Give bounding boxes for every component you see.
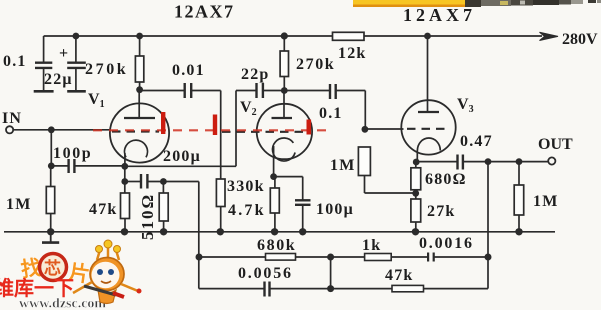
label 100u bbox=[316, 201, 354, 218]
label 270k second bbox=[296, 56, 335, 73]
ground symbol bbox=[42, 232, 59, 243]
tube V3 envelope bbox=[401, 100, 455, 154]
node dot V2 plate bbox=[281, 87, 288, 94]
svg-text:0.1: 0.1 bbox=[3, 53, 27, 70]
svg-text:100μ: 100μ bbox=[316, 201, 354, 218]
label 0.1 mid bbox=[319, 105, 343, 122]
red tick mid bbox=[213, 115, 217, 136]
tube V1 envelope bbox=[110, 103, 169, 162]
node dot gnd 510 bbox=[160, 228, 167, 235]
svg-text:OUT: OUT bbox=[538, 136, 573, 153]
watermark url text bbox=[19, 297, 106, 310]
resistor R 1M output bbox=[514, 162, 524, 232]
wire V3 plate lead bbox=[427, 36, 429, 112]
node dot gnd 330k bbox=[217, 228, 224, 235]
svg-text:V2: V2 bbox=[240, 99, 257, 118]
wire 22p down to cathode bus bbox=[235, 91, 237, 167]
label 47k cathode bbox=[89, 201, 118, 218]
svg-text:V3: V3 bbox=[457, 96, 474, 115]
wire V1 cathode bus bbox=[125, 165, 236, 167]
node dot input junction bbox=[48, 126, 55, 133]
svg-text:12k: 12k bbox=[338, 45, 367, 62]
capacitor C 0.01 coupling bbox=[140, 83, 221, 98]
node dot gnd 1M out bbox=[515, 228, 522, 235]
tube V3 cathode bbox=[417, 138, 440, 162]
node dot V3 grid bbox=[362, 126, 369, 133]
node dot gnd 4.7k bbox=[271, 228, 278, 235]
svg-text:680k: 680k bbox=[257, 237, 296, 254]
red tick V2 bbox=[307, 120, 312, 135]
svg-text:V1: V1 bbox=[88, 91, 105, 110]
resistor R 27k bbox=[411, 199, 421, 232]
wire vertical 0.01 to 330k bbox=[220, 91, 222, 180]
watermark weiku text bbox=[0, 276, 74, 300]
watermark magnifier lens bbox=[40, 254, 67, 281]
svg-text:510Ω: 510Ω bbox=[138, 193, 157, 240]
capacitor C 0.47 output bbox=[416, 155, 548, 170]
node dot gnd 27k bbox=[412, 228, 419, 235]
node dot 22u on rail bbox=[73, 33, 80, 40]
node dot 1M out top bbox=[516, 158, 523, 165]
node dot output tap bbox=[485, 158, 492, 165]
label 280V bbox=[562, 31, 598, 48]
node dot gnd 100u bbox=[299, 228, 306, 235]
label 1M output bbox=[533, 193, 559, 210]
node dot 510 top bbox=[160, 178, 167, 185]
svg-text:1M: 1M bbox=[533, 193, 559, 210]
label 1k bbox=[362, 237, 381, 254]
resistor R 4.7k cathode V2 bbox=[270, 177, 279, 232]
capacitor C 100u bypass bbox=[295, 200, 311, 232]
node dot 270k V1 on rail bbox=[136, 33, 143, 40]
svg-text:0.1: 0.1 bbox=[319, 105, 343, 122]
tube V1 plate bbox=[124, 90, 155, 118]
wire feedback line lower bbox=[199, 288, 488, 290]
capacitor C 0.1 coupling mid bbox=[284, 84, 365, 99]
label 0.0016 bbox=[419, 235, 474, 252]
node dot V3 cathode bbox=[413, 159, 420, 166]
terminal IN bbox=[6, 126, 110, 133]
wire feedback line upper bbox=[199, 256, 488, 258]
capacitor C 100p bbox=[51, 159, 125, 173]
terminal OUT bbox=[548, 157, 555, 164]
label 200u bbox=[163, 148, 201, 165]
label 47k feedback bbox=[385, 267, 414, 284]
watermark magnifier text bbox=[19, 255, 91, 287]
node dot 100p junction bbox=[48, 163, 55, 170]
svg-text:芯: 芯 bbox=[44, 258, 61, 278]
tube V2 cathode bbox=[272, 138, 295, 177]
svg-text:12AX7: 12AX7 bbox=[174, 2, 235, 22]
resistor R 47k cathode V1 bbox=[121, 193, 130, 232]
watermark mascot bbox=[73, 240, 142, 304]
node dot gnd 47k bbox=[121, 228, 128, 235]
wire feedback riser bbox=[198, 182, 200, 289]
label 0.1 bbox=[3, 53, 27, 70]
tube V2 envelope bbox=[257, 104, 312, 159]
ground bar under 0.1 bbox=[34, 90, 54, 93]
capacitor C 22u electrolytic bbox=[67, 36, 86, 91]
svg-text:1M: 1M bbox=[330, 157, 356, 174]
resistor R 270k second bbox=[280, 36, 288, 91]
label 330k bbox=[227, 178, 265, 195]
svg-text:47k: 47k bbox=[385, 267, 414, 284]
svg-text:270k: 270k bbox=[296, 56, 335, 73]
label 100p bbox=[53, 145, 92, 162]
node dot 200u tap bbox=[121, 178, 128, 185]
wire output feedback drop bbox=[487, 162, 489, 289]
label 22p bbox=[241, 66, 270, 83]
svg-text:330k: 330k bbox=[227, 178, 265, 195]
svg-text:IN: IN bbox=[2, 110, 22, 127]
resistor R 680k feedback bbox=[266, 254, 296, 261]
label 0.47 bbox=[460, 133, 493, 150]
svg-text:0.47: 0.47 bbox=[460, 133, 493, 150]
svg-text:0.01: 0.01 bbox=[172, 62, 205, 79]
label 270k first bbox=[85, 61, 128, 78]
banner strip top right bbox=[353, 0, 601, 7]
resistor R 1k feedback bbox=[365, 254, 392, 261]
svg-text:47k: 47k bbox=[89, 201, 118, 218]
svg-text:270k: 270k bbox=[85, 61, 128, 78]
label 1M grid bbox=[330, 157, 356, 174]
svg-text:100p: 100p bbox=[53, 145, 92, 162]
svg-text:12AX7: 12AX7 bbox=[403, 5, 476, 25]
svg-text:0.0016: 0.0016 bbox=[419, 235, 474, 252]
svg-text:22μ: 22μ bbox=[44, 71, 73, 88]
svg-text:200μ: 200μ bbox=[163, 148, 201, 165]
node dot divider junction bbox=[412, 190, 419, 197]
label OUT bbox=[538, 136, 573, 153]
capacitor C 22p feedback bbox=[236, 83, 284, 98]
node dot mid lower bbox=[327, 285, 334, 292]
label 12AX7 left bbox=[174, 2, 235, 22]
node dot V1 cathode bbox=[121, 163, 128, 170]
resistor R 680ohm bbox=[411, 162, 421, 199]
resistor R 330k grid leak V2 bbox=[216, 179, 225, 232]
tube V1 cathode bbox=[124, 140, 147, 166]
red dashed signal path overlay bbox=[93, 129, 332, 131]
tube V1 grid bbox=[112, 130, 159, 132]
svg-text:www.dzsc.com: www.dzsc.com bbox=[19, 297, 106, 310]
svg-text:22p: 22p bbox=[241, 66, 270, 83]
node dot V3 plate rail bbox=[424, 33, 431, 40]
red tick V1 bbox=[161, 112, 165, 134]
label IN bbox=[2, 110, 22, 127]
label 4.7k bbox=[228, 202, 266, 219]
wire V2 cathode to 100u bbox=[274, 177, 303, 201]
wire top supply rail bbox=[44, 35, 542, 37]
resistor R 510ohm bbox=[159, 182, 168, 232]
capacitor C 0.0016 bbox=[428, 253, 434, 262]
resistor R 1M input bbox=[46, 166, 54, 232]
label 22u bbox=[44, 71, 73, 88]
label V2 bbox=[240, 99, 257, 118]
svg-text:27k: 27k bbox=[427, 203, 456, 220]
arrow 280V supply bbox=[540, 32, 559, 40]
resistor R 12k supply bbox=[333, 32, 365, 40]
svg-text:1M: 1M bbox=[6, 196, 32, 213]
svg-text:+: + bbox=[59, 45, 69, 62]
label V3 bbox=[457, 96, 474, 115]
resistor R 47k feedback bbox=[392, 285, 424, 291]
wire mid drop bbox=[330, 257, 332, 289]
node dot gnd 1M bbox=[47, 228, 54, 235]
svg-text:280V: 280V bbox=[562, 31, 598, 48]
tube V2 grid bbox=[222, 131, 306, 133]
label + polarity bbox=[59, 45, 69, 62]
ground bar under 22u bbox=[67, 90, 86, 93]
label 27k bbox=[427, 203, 456, 220]
label 12k bbox=[338, 45, 367, 62]
tube V3 grid bbox=[407, 128, 445, 130]
node dot 270k V2 on rail bbox=[281, 32, 288, 39]
node dot feedback left bbox=[196, 254, 203, 261]
resistor R 1M V3 grid bbox=[358, 147, 415, 193]
svg-text:0.0056: 0.0056 bbox=[238, 265, 293, 282]
node dot feedback mid bbox=[327, 254, 334, 261]
resistor R 270k first bbox=[135, 36, 143, 90]
node dot V1 plate bbox=[136, 86, 143, 93]
svg-text:1k: 1k bbox=[362, 237, 381, 254]
wire cathode down bbox=[124, 166, 126, 193]
capacitor C 200u bypass bbox=[125, 174, 199, 189]
tube V3 plate bbox=[418, 111, 439, 113]
label 510ohm vertical bbox=[138, 193, 157, 240]
wire V3 grid lead bbox=[365, 128, 404, 130]
capacitor C 0.1 input bypass bbox=[35, 36, 52, 91]
label 0.01 bbox=[172, 62, 205, 79]
label 0.0056 bbox=[238, 265, 293, 282]
wire input down bbox=[50, 130, 52, 166]
svg-text:4.7k: 4.7k bbox=[228, 202, 266, 219]
label V1 bbox=[88, 91, 105, 110]
svg-text:680Ω: 680Ω bbox=[425, 171, 467, 188]
node dot V2 cathode bbox=[270, 173, 277, 180]
capacitor C 0.0056 bbox=[265, 282, 270, 297]
tube V2 plate bbox=[272, 91, 293, 119]
wire 0.1 down to V3 grid bbox=[364, 91, 366, 130]
label 680ohm bbox=[425, 171, 467, 188]
wire ground rail bbox=[4, 231, 555, 233]
label 12AX7 right bbox=[403, 5, 476, 25]
label 680k bbox=[257, 237, 296, 254]
node dot feedback right bbox=[485, 254, 492, 261]
label 1M input bbox=[6, 196, 32, 213]
